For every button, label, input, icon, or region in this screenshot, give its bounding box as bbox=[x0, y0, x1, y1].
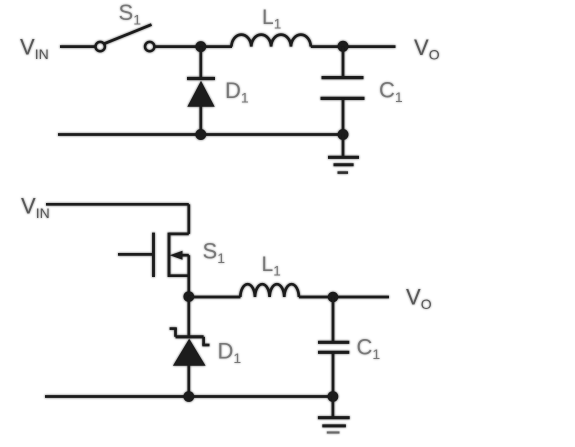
transistor S1 gate plate bbox=[152, 233, 155, 277]
ground (bottom circuit) bar 2 bbox=[322, 424, 346, 427]
inductor L1 (bottom) bbox=[240, 284, 299, 297]
schottky cathode left hook foot bbox=[170, 327, 177, 330]
wire node C down to diode bbox=[187, 297, 190, 337]
wire diode to bottom rail (bottom circuit) bbox=[187, 364, 190, 397]
junction dot diode/rail (bottom) bbox=[183, 391, 194, 402]
switch S1 blade bbox=[105, 25, 152, 44]
wire inductor to VO (bottom) bbox=[299, 296, 389, 299]
node B junction dot (inductor/capacitor/output) bbox=[338, 41, 349, 52]
ground (top circuit) bar 3 bbox=[338, 171, 349, 174]
wire VIN horizontal bbox=[46, 203, 189, 206]
wire source down to node C bbox=[187, 255, 190, 297]
diode D1 (bottom, schottky) cathode bar bbox=[176, 335, 204, 338]
diode D1 (top) anode triangle bbox=[187, 81, 214, 107]
wire node B down to capacitor bbox=[342, 47, 345, 78]
node D junction dot (inductor/capacitor/output) bbox=[328, 292, 339, 303]
transistor S1 source line bbox=[181, 254, 189, 257]
bottom rail (bottom circuit) bbox=[45, 395, 333, 398]
diode D1 (bottom) anode triangle bbox=[173, 339, 206, 366]
wire inductor to VO bbox=[311, 45, 396, 48]
junction dot diode/rail bbox=[195, 129, 206, 140]
diode D1 (top) cathode bar bbox=[187, 77, 215, 80]
transistor S1 lower stub bbox=[169, 274, 189, 277]
transistor S1 arrow head bbox=[170, 251, 183, 260]
capacitor C1 (bottom) upper plate bbox=[318, 341, 349, 344]
wire capacitor to bottom rail bbox=[342, 98, 345, 134]
junction dot capacitor/rail (bottom) bbox=[328, 391, 339, 402]
transistor S1 (MOSFET) gate lead bbox=[118, 253, 152, 256]
wire diode to bottom rail bbox=[199, 105, 202, 135]
wire node D down to capacitor (bottom) bbox=[332, 297, 335, 342]
ground (top circuit) bar 2 bbox=[334, 163, 354, 166]
ground (bottom circuit) stem bbox=[332, 397, 335, 417]
wire node C to inductor bbox=[189, 296, 241, 299]
wire switch to node A bbox=[155, 45, 232, 48]
switch S1 left contact circle bbox=[96, 42, 105, 51]
wire capacitor to bottom rail (bottom) bbox=[332, 352, 335, 396]
schottky cathode left hook leg bbox=[174, 328, 177, 337]
schottky cathode right hook leg bbox=[202, 337, 205, 346]
wire VIN to switch bbox=[60, 45, 96, 48]
capacitor C1 (top) lower plate bbox=[321, 97, 365, 100]
ground (top circuit) bar 1 bbox=[328, 156, 359, 159]
node A junction dot (switch/diode/inductor) bbox=[195, 41, 206, 52]
transistor S1 drain stub bbox=[169, 233, 189, 236]
switch S1 right contact circle bbox=[145, 42, 154, 51]
bottom rail (top circuit) bbox=[58, 133, 343, 136]
junction dot capacitor/rail bbox=[338, 129, 349, 140]
ground (top circuit) stem bbox=[342, 135, 345, 157]
wire VIN corner down to MOSFET drain bbox=[187, 204, 190, 234]
transistor S1 channel plate bbox=[168, 233, 171, 277]
schottky cathode right hook foot bbox=[202, 344, 209, 347]
capacitor C1 (top) upper plate bbox=[322, 76, 364, 79]
capacitor C1 (bottom) lower plate bbox=[318, 351, 349, 354]
inductor L1 (top) bbox=[231, 35, 310, 47]
wire node A down to diode bbox=[199, 47, 202, 79]
ground (bottom circuit) bar 1 bbox=[318, 416, 350, 419]
ground (bottom circuit) bar 3 bbox=[327, 431, 340, 433]
node C junction dot (MOSFET/diode/inductor) bbox=[183, 291, 194, 302]
